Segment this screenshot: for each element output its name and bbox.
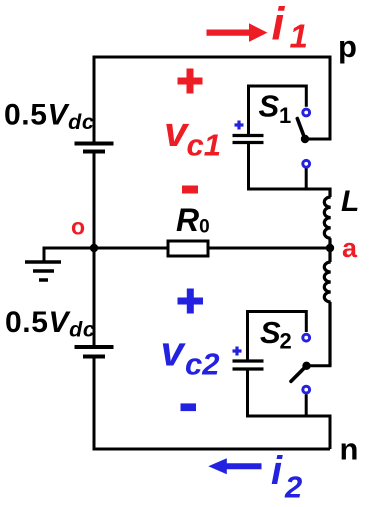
switch S2 blade	[291, 366, 307, 382]
wire ground branch	[44, 248, 94, 262]
label i1 (red)	[272, 0, 308, 55]
label node p	[338, 29, 357, 64]
svg-text:1: 1	[290, 18, 308, 55]
label S1	[259, 89, 292, 129]
label node a	[342, 233, 358, 263]
label R0	[176, 202, 210, 238]
wire S1 box top and right (to top terminal)	[249, 86, 307, 134]
svg-text:2: 2	[280, 329, 292, 354]
wire bottom rail n	[93, 448, 331, 451]
wire S2 bottom terminal stub	[305, 394, 308, 416]
wire switch S2 pivot stub	[307, 364, 332, 367]
svg-text:p: p	[338, 29, 357, 64]
svg-text:c2: c2	[185, 347, 219, 382]
wire S1 bottom terminal stub	[305, 169, 308, 190]
label i2 (blue)	[271, 449, 302, 505]
label C1 polarity + (blue)	[235, 121, 244, 130]
wire right rail upper (p down to switch S1)	[329, 56, 332, 140]
voltage source V1 0.5Vdc (battery)	[75, 144, 114, 152]
svg-text:2: 2	[284, 470, 302, 505]
label vc1 polarity + (red)	[178, 69, 203, 94]
inductor L upper coil	[324, 188, 330, 249]
resistor R0	[168, 241, 208, 256]
ground	[25, 262, 61, 280]
label vc2 polarity - (blue)	[181, 403, 197, 411]
label L	[341, 185, 359, 218]
wire S1 box left lower and bottom	[249, 144, 332, 189]
label vc1 polarity - (red)	[182, 186, 198, 194]
label node n	[340, 432, 359, 467]
svg-text:c1: c1	[187, 128, 221, 163]
wire S2 box to bottom rail	[329, 416, 332, 449]
svg-text:S: S	[259, 89, 280, 124]
label vc1 (red)	[164, 108, 221, 163]
node a junction dot	[326, 244, 334, 252]
svg-text:i: i	[271, 449, 283, 493]
switch S1 bottom terminal	[303, 160, 310, 167]
label S2	[260, 315, 292, 354]
switch S2 bottom terminal	[303, 386, 310, 393]
svg-text:1: 1	[279, 103, 291, 128]
label C2 polarity + (blue)	[233, 347, 242, 356]
switch S1 top terminal	[303, 109, 310, 116]
node o junction dot	[90, 244, 98, 252]
voltage source V2 0.5Vdc (battery)	[75, 347, 114, 357]
wire left rail upper (p to battery V1)	[93, 56, 96, 142]
svg-text:n: n	[340, 432, 359, 467]
capacitor C1	[233, 136, 264, 143]
svg-text:a: a	[342, 233, 358, 263]
wire R0 right segment (resistor to node a)	[208, 247, 330, 250]
current arrow i1 (red)	[207, 23, 268, 42]
label vc2 (blue)	[161, 327, 220, 381]
svg-text:i: i	[272, 0, 286, 50]
label vc2 polarity + (blue)	[178, 289, 204, 314]
svg-text:v: v	[161, 327, 187, 374]
wire S2 box left lower and bottom	[248, 371, 332, 417]
svg-text:S: S	[260, 315, 281, 350]
switch S2 top terminal	[303, 334, 310, 341]
wire left rail lower (V2 to n)	[93, 358, 96, 451]
wire switch S1 pivot stub	[305, 138, 332, 141]
svg-text:o: o	[71, 214, 85, 240]
wire top rail p	[93, 56, 331, 59]
wire R0 left segment (node o to resistor)	[94, 247, 168, 250]
label node o	[71, 214, 85, 240]
wire S2 box top and right (to top terminal)	[248, 312, 307, 360]
capacitor C2	[233, 361, 264, 369]
switch S1 blade	[297, 119, 305, 140]
current arrow i2 (blue)	[208, 458, 261, 474]
switch S2 pivot dot	[302, 362, 310, 370]
inductor L lower coil	[324, 248, 330, 366]
label 0.5Vdc (upper source)	[4, 99, 94, 135]
svg-text:L: L	[341, 185, 359, 218]
label 0.5Vdc (lower source)	[5, 306, 95, 342]
switch S1 pivot dot	[301, 135, 309, 143]
wire left rail middle (V1 to V2)	[93, 153, 96, 345]
